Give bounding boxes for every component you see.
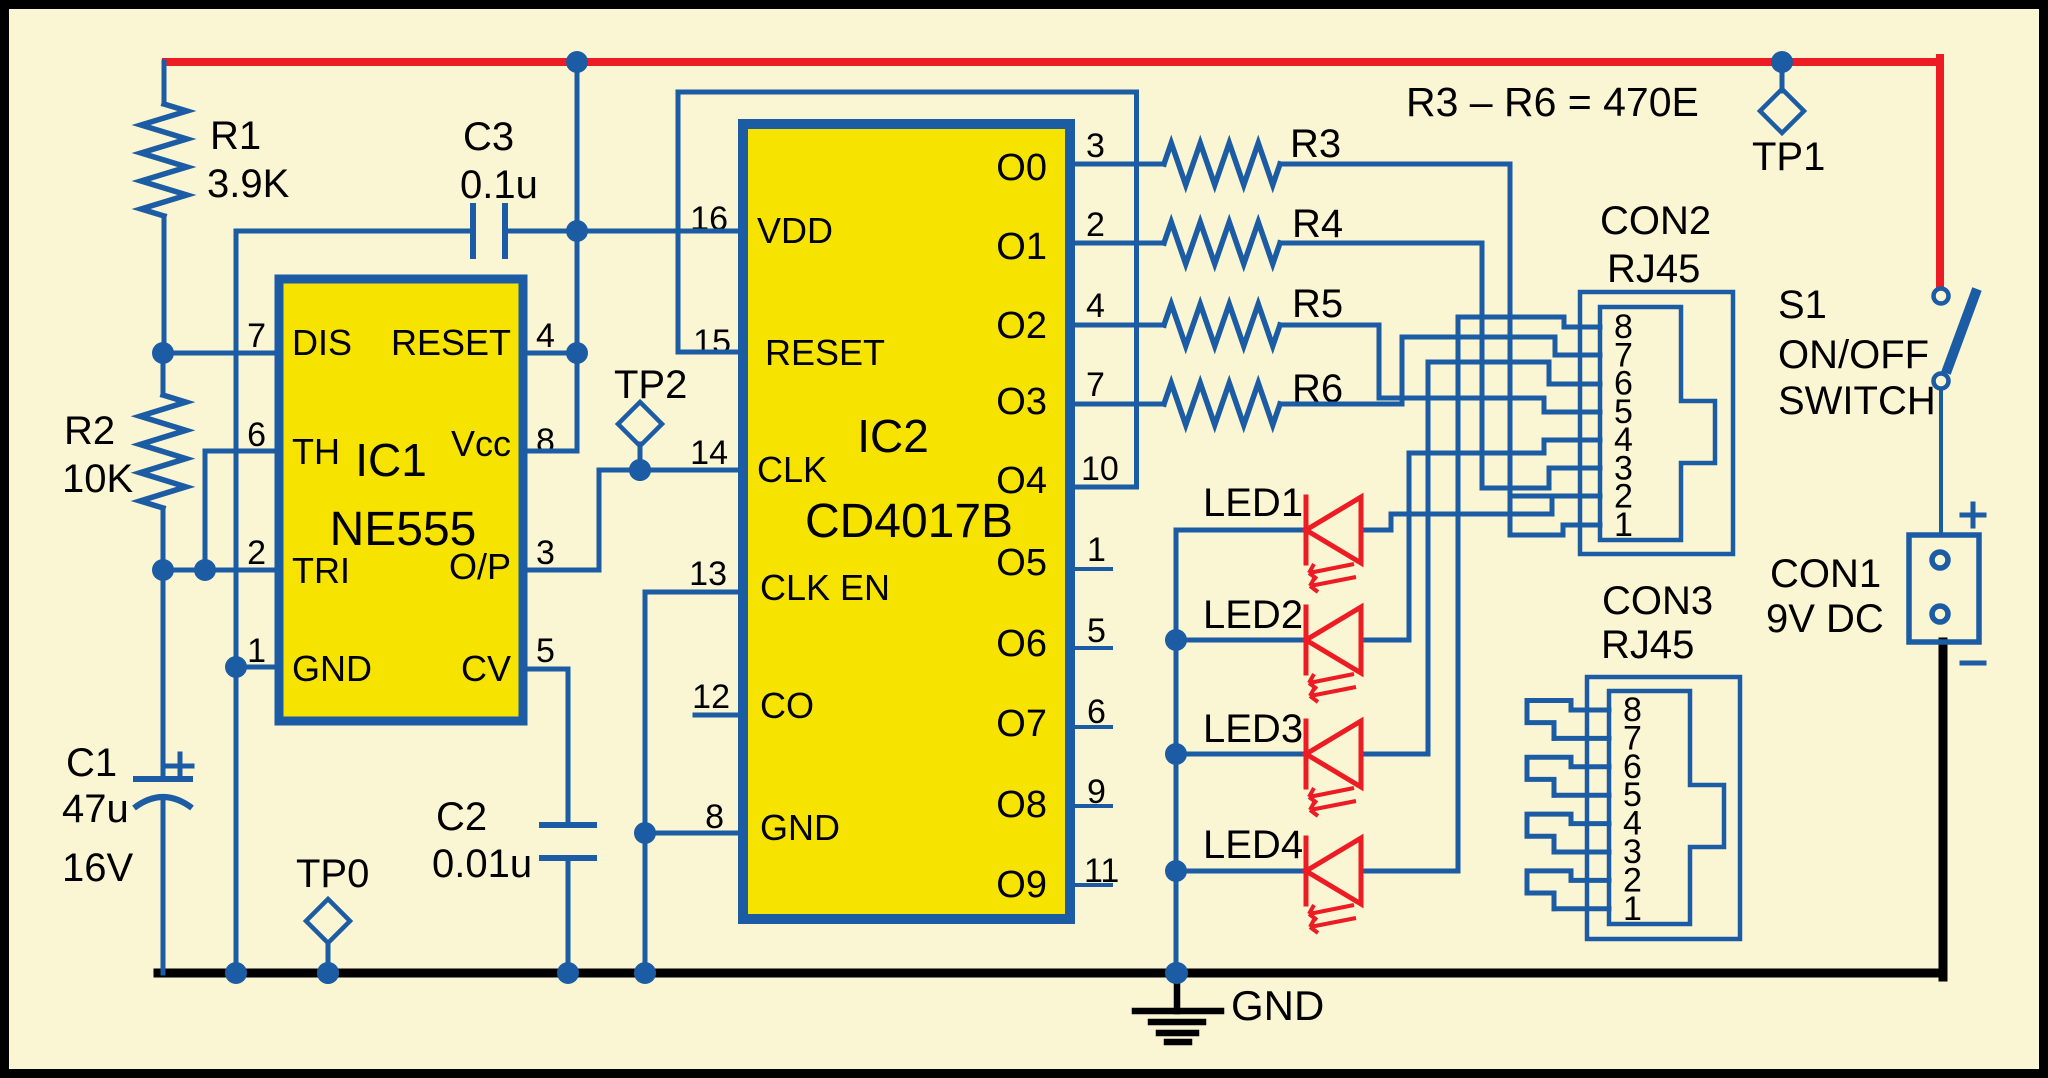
wire GND black bottom rail (158, 969, 1943, 978)
svg-text:8: 8 (536, 422, 555, 460)
resistor R4 470E (1164, 222, 1280, 264)
wire O/P pin3 to IC2 CLK (523, 470, 736, 570)
svg-text:CON1: CON1 (1770, 552, 1881, 596)
svg-text:13: 13 (689, 555, 727, 593)
wire CO pin12 stub (695, 713, 740, 718)
svg-text:0.1u: 0.1u (460, 163, 538, 207)
node junction (568,973) (557, 962, 579, 984)
wire LED cathode bus to ground (1174, 530, 1179, 973)
connector CON1 9V DC (1909, 535, 1979, 642)
node junction (645,973) (634, 962, 656, 984)
LED2 (1176, 638, 1306, 643)
wire +9V red top rail (166, 58, 1940, 66)
LED1 (1176, 528, 1306, 533)
node junction (236,973) (225, 962, 247, 984)
svg-text:6: 6 (247, 416, 266, 454)
svg-text:O3: O3 (996, 381, 1047, 423)
svg-text:O2: O2 (996, 305, 1047, 347)
svg-text:TP0: TP0 (296, 852, 369, 896)
svg-text:O5: O5 (996, 542, 1047, 584)
CON3 pin 3 (1554, 850, 1609, 855)
CON3 pin 2 (1527, 871, 1609, 909)
svg-text:1: 1 (1623, 890, 1642, 928)
wire CLK EN pin13 to ground rail (645, 592, 740, 973)
wire switch to CON1 (1939, 389, 1943, 535)
resistor R1 3.9K (162, 62, 167, 104)
svg-text:10: 10 (1081, 450, 1119, 488)
svg-text:7: 7 (1086, 366, 1105, 404)
svg-text:GND: GND (1231, 982, 1324, 1029)
CON3 pin 7 (1554, 736, 1609, 741)
wire O2 pin4 to R5 (1074, 323, 1164, 328)
svg-text:2: 2 (1086, 206, 1105, 244)
capacitor C1 47u 16V electrolytic (161, 570, 166, 779)
wire O0 pin3 to R3 (1074, 162, 1164, 167)
svg-text:14: 14 (690, 434, 728, 472)
svg-text:4: 4 (1086, 287, 1105, 325)
wire GND pin1 (236, 665, 279, 670)
LED3 (1176, 752, 1306, 757)
wire RESET pin4 to Vcc rail (523, 351, 577, 356)
wire DIS pin7 (163, 351, 279, 356)
svg-text:CLK EN: CLK EN (760, 567, 890, 608)
svg-text:O7: O7 (996, 703, 1047, 745)
resistor R3 470E (1164, 143, 1280, 185)
svg-text:TRI: TRI (292, 550, 350, 591)
svg-text:LED2: LED2 (1203, 593, 1303, 637)
svg-text:9V DC: 9V DC (1766, 597, 1884, 641)
svg-text:16V: 16V (62, 846, 133, 890)
svg-text:GND: GND (760, 807, 840, 848)
node junction (645,833) (634, 822, 656, 844)
svg-text:O9: O9 (996, 864, 1047, 906)
CON3 pin 6 (1527, 757, 1609, 795)
svg-text:12: 12 (692, 678, 730, 716)
svg-text:1: 1 (247, 632, 266, 670)
svg-text:CD4017B: CD4017B (805, 495, 1013, 548)
svg-text:C3: C3 (463, 115, 514, 159)
svg-text:RESET: RESET (765, 332, 885, 373)
wire R6 to CON2 pin7 (1280, 337, 1600, 404)
resistor R2 10K (161, 353, 166, 395)
svg-text:O/P: O/P (449, 546, 511, 587)
svg-text:4: 4 (536, 317, 555, 355)
switch S1 ON/OFF (1934, 289, 1949, 304)
wire black from CON1 minus to bottom rail (1939, 642, 1948, 977)
svg-text:CON2: CON2 (1600, 199, 1711, 243)
svg-text:O0: O0 (996, 147, 1047, 189)
svg-text:R4: R4 (1292, 202, 1343, 246)
CON3 pin 5 (1554, 793, 1609, 798)
wire output stub pin 6 (1074, 725, 1111, 729)
svg-text:O4: O4 (996, 460, 1047, 502)
svg-text:GND: GND (292, 648, 372, 689)
node junction (577,353) (566, 342, 588, 364)
svg-text:Vcc: Vcc (451, 423, 511, 464)
node junction (236,667) (225, 656, 247, 678)
node junction (163,353) (152, 342, 174, 364)
svg-text:R1: R1 (210, 114, 261, 158)
wire O1 pin2 to R4 (1074, 241, 1164, 246)
svg-text:CO: CO (760, 685, 814, 726)
svg-text:1: 1 (1087, 531, 1106, 569)
wire output stub pin 9 (1074, 804, 1111, 808)
svg-text:LED1: LED1 (1203, 481, 1303, 525)
svg-text:O1: O1 (996, 226, 1047, 268)
node junction (640,470) (629, 459, 651, 481)
svg-text:IC1: IC1 (355, 434, 427, 486)
wire output stub pin 5 (1074, 646, 1111, 650)
svg-text:47u: 47u (62, 787, 129, 831)
resistor R6 470E (1164, 383, 1280, 425)
svg-text:O6: O6 (996, 623, 1047, 665)
svg-text:7: 7 (247, 317, 266, 355)
svg-text:TP1: TP1 (1752, 135, 1825, 179)
wire R3 to CON2 pin1 (1280, 164, 1600, 535)
wire LED3 to CON2 pin6 (1361, 362, 1600, 754)
svg-text:R5: R5 (1292, 282, 1343, 326)
op IC2 CD4017B decade counter (743, 124, 1070, 919)
wire TRI pin2 (163, 568, 279, 573)
svg-text:S1: S1 (1778, 283, 1827, 327)
svg-text:5: 5 (536, 632, 555, 670)
svg-text:3.9K: 3.9K (207, 162, 290, 206)
node junction (328,973) (317, 962, 339, 984)
wire O3 pin7 to R6 (1074, 402, 1164, 407)
capacitor C2 0.01u (542, 822, 594, 828)
wire R4 to CON2 pin3 (1280, 243, 1600, 488)
wire LED4 to CON2 pin8 (1361, 317, 1600, 871)
svg-text:CV: CV (461, 648, 511, 689)
svg-text:5: 5 (1087, 612, 1106, 650)
wire C3 left to ground (234, 231, 239, 973)
svg-text:IC2: IC2 (857, 410, 929, 462)
wire red down to switch S1 (1936, 58, 1944, 288)
svg-text:ON/OFF: ON/OFF (1778, 333, 1929, 377)
svg-text:VDD: VDD (757, 210, 833, 251)
wire CV pin5 to C2 (523, 669, 568, 825)
LED4 (1176, 869, 1306, 874)
svg-text:LED4: LED4 (1203, 823, 1303, 867)
connector CON2 RJ45 (1580, 292, 1733, 554)
wire output stub pin 11 (1074, 883, 1111, 887)
wire RESET pin15 loop to O4 pin10 (678, 92, 1137, 487)
wire R5 to CON2 pin5 (1280, 325, 1600, 412)
wire LED2 to CON2 pin4 (1361, 440, 1600, 640)
wire Vcc pin8 vertical to +9V (523, 62, 577, 451)
svg-text:8: 8 (705, 798, 724, 836)
svg-text:3: 3 (1086, 127, 1105, 165)
node junction (577,231) (566, 220, 588, 242)
svg-text:1: 1 (1614, 506, 1633, 544)
node junction (205,570) (194, 559, 216, 581)
svg-text:LED3: LED3 (1203, 707, 1303, 751)
svg-text:DIS: DIS (292, 322, 352, 363)
svg-text:C1: C1 (66, 741, 117, 785)
svg-text:RJ45: RJ45 (1607, 247, 1700, 291)
svg-text:2: 2 (247, 534, 266, 572)
svg-text:0.01u: 0.01u (432, 842, 532, 886)
svg-text:RESET: RESET (391, 322, 511, 363)
connector CON3 RJ45 (1587, 677, 1740, 939)
node junction (1782,62) (1771, 51, 1793, 73)
svg-text:15: 15 (693, 323, 731, 361)
ground GND (1174, 973, 1181, 1011)
CON3 pin 1 (1554, 906, 1609, 911)
wire GND pin8 (645, 831, 740, 836)
svg-text:CLK: CLK (757, 449, 827, 490)
node junction (163,570) (152, 559, 174, 581)
svg-text:CON3: CON3 (1602, 579, 1713, 623)
test point TP1 (1780, 62, 1785, 91)
CON3 pin 4 (1527, 814, 1609, 852)
svg-text:10K: 10K (62, 457, 133, 501)
wire output stub pin 1 (1074, 567, 1111, 571)
svg-text:RJ45: RJ45 (1601, 623, 1694, 667)
svg-text:3: 3 (536, 534, 555, 572)
op IC1 NE555 timer (279, 279, 523, 721)
svg-text:C2: C2 (436, 795, 487, 839)
node junction (577,62) (566, 51, 588, 73)
svg-text:R2: R2 (64, 409, 115, 453)
resistor R5 470E (1164, 304, 1280, 346)
wire LED1 to CON2 pin2 (1361, 496, 1600, 530)
wire VDD pin16 to C3 node (577, 229, 740, 234)
wire TH pin6 to TRI (205, 451, 279, 570)
svg-text:SWITCH: SWITCH (1778, 379, 1936, 423)
svg-text:R3: R3 (1290, 122, 1341, 166)
svg-text:R3 – R6 = 470E: R3 – R6 = 470E (1406, 79, 1699, 125)
capacitor C3 0.1u (236, 229, 473, 234)
svg-text:TP2: TP2 (614, 363, 687, 407)
CON3 pin 8 (1527, 701, 1609, 739)
svg-text:O8: O8 (996, 784, 1047, 826)
svg-text:TH: TH (292, 431, 340, 472)
